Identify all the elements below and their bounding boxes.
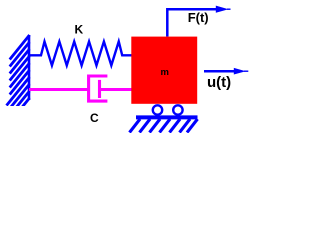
svg-text:K: K — [75, 23, 84, 37]
mass m block — [131, 37, 197, 104]
ground line — [136, 115, 198, 119]
svg-text:u(t): u(t) — [207, 74, 231, 91]
wall post — [28, 35, 31, 100]
damper C rod right — [100, 88, 132, 91]
damper C rod left — [29, 88, 88, 91]
svg-text:F(t): F(t) — [188, 10, 209, 25]
damper C cup — [89, 76, 108, 101]
wall hatching — [7, 35, 30, 127]
spring K wire — [30, 42, 133, 66]
damper C piston — [98, 80, 101, 98]
force arrow F(t) head — [216, 6, 229, 13]
wheel right — [173, 105, 182, 114]
svg-text:m: m — [161, 67, 169, 78]
svg-text:C: C — [90, 111, 99, 125]
wheel left — [153, 105, 162, 114]
displacement arrow u(t) head — [234, 68, 246, 75]
force arrow F(t) stem — [167, 9, 218, 36]
displacement arrow u(t) line — [204, 70, 236, 73]
ground hatching — [130, 119, 198, 133]
